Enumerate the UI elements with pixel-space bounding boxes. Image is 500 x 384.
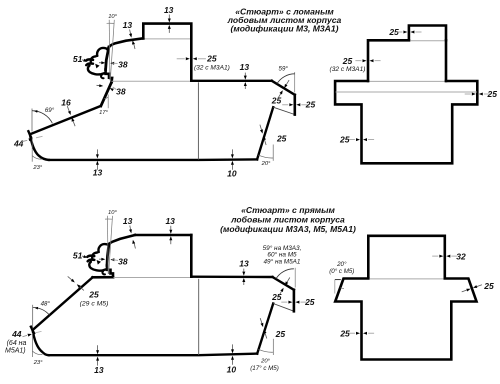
svg-text:13: 13 bbox=[123, 20, 133, 30]
nose curve bbox=[33, 330, 49, 355]
svg-text:51: 51 bbox=[73, 54, 83, 64]
svg-text:10°: 10° bbox=[108, 210, 117, 216]
mantlet hook top bbox=[97, 48, 107, 56]
svg-text:48°: 48° bbox=[41, 300, 51, 307]
svg-text:25: 25 bbox=[342, 56, 353, 66]
turret front plate (10 deg) bbox=[106, 47, 109, 69]
turret front step bbox=[107, 265, 113, 277]
svg-text:16: 16 bbox=[61, 97, 71, 107]
svg-text:44: 44 bbox=[13, 139, 24, 149]
mantlet upper blob bbox=[91, 56, 96, 63]
dim 10deg lines bbox=[106, 216, 109, 274]
svg-text:25: 25 bbox=[305, 99, 316, 109]
svg-text:23°: 23° bbox=[33, 360, 43, 366]
svg-text:(модификации М3, М3А1): (модификации М3, М3А1) bbox=[230, 24, 338, 34]
mantlet chin bbox=[101, 75, 104, 78]
svg-text:10: 10 bbox=[227, 364, 237, 374]
turret top bbox=[135, 234, 191, 237]
fender top thin under turret bbox=[370, 80, 445, 82]
mantlet lower blob bbox=[88, 66, 105, 75]
deck rear slope bbox=[273, 277, 294, 290]
nose tick bbox=[31, 327, 34, 334]
svg-text:59°: 59° bbox=[279, 65, 289, 72]
svg-text:51: 51 bbox=[73, 250, 83, 260]
svg-text:М5А1): М5А1) bbox=[5, 347, 26, 354]
svg-text:13: 13 bbox=[240, 62, 250, 72]
svg-text:20°: 20° bbox=[261, 161, 271, 167]
deck thin line under turret bbox=[112, 80, 191, 82]
mantlet upper blob bbox=[92, 253, 97, 260]
engine deck bbox=[191, 276, 272, 279]
turret box bbox=[368, 236, 445, 278]
svg-text:13: 13 bbox=[123, 216, 133, 226]
turret front step bbox=[106, 69, 113, 82]
svg-text:13: 13 bbox=[239, 259, 249, 269]
svg-text:17°: 17° bbox=[99, 110, 108, 116]
hull bottom bbox=[49, 354, 257, 356]
dim 23deg bbox=[31, 138, 33, 162]
svg-text:лобовым листом корпуса: лобовым листом корпуса bbox=[230, 214, 345, 224]
dim 20deg (17 s M5) bbox=[272, 339, 274, 355]
gun barrel bbox=[87, 256, 94, 257]
svg-text:10°: 10° bbox=[108, 14, 117, 20]
svg-text:25: 25 bbox=[275, 329, 286, 339]
svg-text:«Стюарт» с прямым: «Стюарт» с прямым bbox=[241, 205, 335, 215]
svg-text:25: 25 bbox=[339, 135, 350, 145]
turret box bbox=[368, 40, 446, 81]
turret front plate bbox=[107, 244, 109, 265]
svg-text:13: 13 bbox=[164, 5, 174, 15]
deck rear slope 59deg bbox=[272, 81, 295, 95]
dim 23deg bbox=[32, 333, 34, 357]
svg-text:(32 с М3А1): (32 с М3А1) bbox=[194, 65, 230, 72]
nose curve bbox=[30, 134, 49, 160]
cupola base thin bbox=[410, 40, 445, 42]
sponson thin line under turret bbox=[370, 278, 444, 280]
svg-text:44: 44 bbox=[11, 329, 22, 339]
svg-text:(модификации М3А3, М5, М5А1): (модификации М3А3, М5, М5А1) bbox=[220, 224, 356, 234]
sponson thin line bbox=[336, 91, 477, 93]
rear step thin bbox=[273, 107, 295, 114]
dim 20deg rear bbox=[272, 145, 274, 161]
glacis 48deg bbox=[33, 277, 93, 330]
svg-text:23°: 23° bbox=[32, 165, 42, 171]
engine deck bbox=[191, 80, 271, 82]
svg-text:38: 38 bbox=[118, 60, 128, 70]
cupola bbox=[409, 26, 446, 41]
mantlet chin bbox=[102, 271, 105, 274]
svg-text:20°: 20° bbox=[260, 358, 270, 364]
svg-text:25: 25 bbox=[276, 134, 287, 144]
deck thin line under turret bbox=[114, 277, 191, 279]
svg-text:25: 25 bbox=[483, 281, 494, 291]
rear step thin bbox=[273, 304, 294, 312]
hull front plate 17deg bbox=[101, 82, 112, 106]
svg-text:(64 на: (64 на bbox=[7, 340, 27, 347]
nose tick bbox=[28, 131, 31, 137]
svg-text:25: 25 bbox=[271, 95, 282, 105]
svg-text:32: 32 bbox=[456, 251, 466, 261]
mantlet lower blob bbox=[89, 262, 106, 271]
glacis 16mm bbox=[30, 106, 101, 134]
svg-text:20°: 20° bbox=[336, 261, 347, 268]
svg-text:38: 38 bbox=[118, 257, 128, 267]
svg-text:(29 с М5): (29 с М5) bbox=[80, 300, 109, 307]
sloped hull roof bbox=[109, 38, 144, 47]
hull bottom bbox=[49, 158, 257, 161]
fender/sponson box bbox=[335, 81, 477, 163]
turret outline bbox=[143, 24, 191, 81]
svg-text:13: 13 bbox=[165, 216, 175, 226]
svg-text:60° на М5: 60° на М5 bbox=[267, 251, 297, 259]
rear vertical edge bbox=[293, 290, 296, 312]
dim 17deg bbox=[107, 95, 109, 109]
svg-text:49° на М5А1: 49° на М5А1 bbox=[264, 257, 301, 265]
svg-text:38: 38 bbox=[116, 86, 126, 96]
svg-text:(17° с М5): (17° с М5) bbox=[250, 365, 279, 372]
svg-text:25: 25 bbox=[206, 54, 217, 64]
dim 69deg bbox=[31, 109, 33, 132]
svg-text:(0° с М5): (0° с М5) bbox=[329, 268, 354, 275]
mantlet hook top bbox=[98, 244, 108, 252]
gun barrel bbox=[86, 59, 93, 60]
svg-text:69°: 69° bbox=[45, 107, 55, 114]
dim 48deg bbox=[32, 305, 34, 329]
svg-text:25: 25 bbox=[339, 328, 350, 338]
turret right wall bbox=[190, 235, 193, 277]
hull front top bbox=[93, 276, 113, 279]
svg-text:13: 13 bbox=[94, 365, 104, 375]
rear plate 20deg bbox=[257, 107, 273, 159]
hull divider thin bbox=[198, 279, 200, 355]
mantlet inner detail bbox=[95, 64, 99, 69]
turret roof thin line bbox=[145, 38, 191, 40]
svg-text:25: 25 bbox=[88, 290, 99, 300]
hull divider thin bbox=[197, 82, 199, 159]
mantlet inner detail bbox=[97, 260, 101, 265]
dim 10deg lines bbox=[108, 20, 111, 80]
svg-text:(32 с М3А1): (32 с М3А1) bbox=[330, 66, 366, 73]
sloped roof bbox=[109, 235, 135, 245]
svg-text:59° на М3А3,: 59° на М3А3, bbox=[263, 244, 302, 252]
rear vertical edge bbox=[293, 95, 296, 115]
sponson with sloped sides bbox=[335, 279, 476, 360]
rear plate bbox=[257, 304, 273, 354]
